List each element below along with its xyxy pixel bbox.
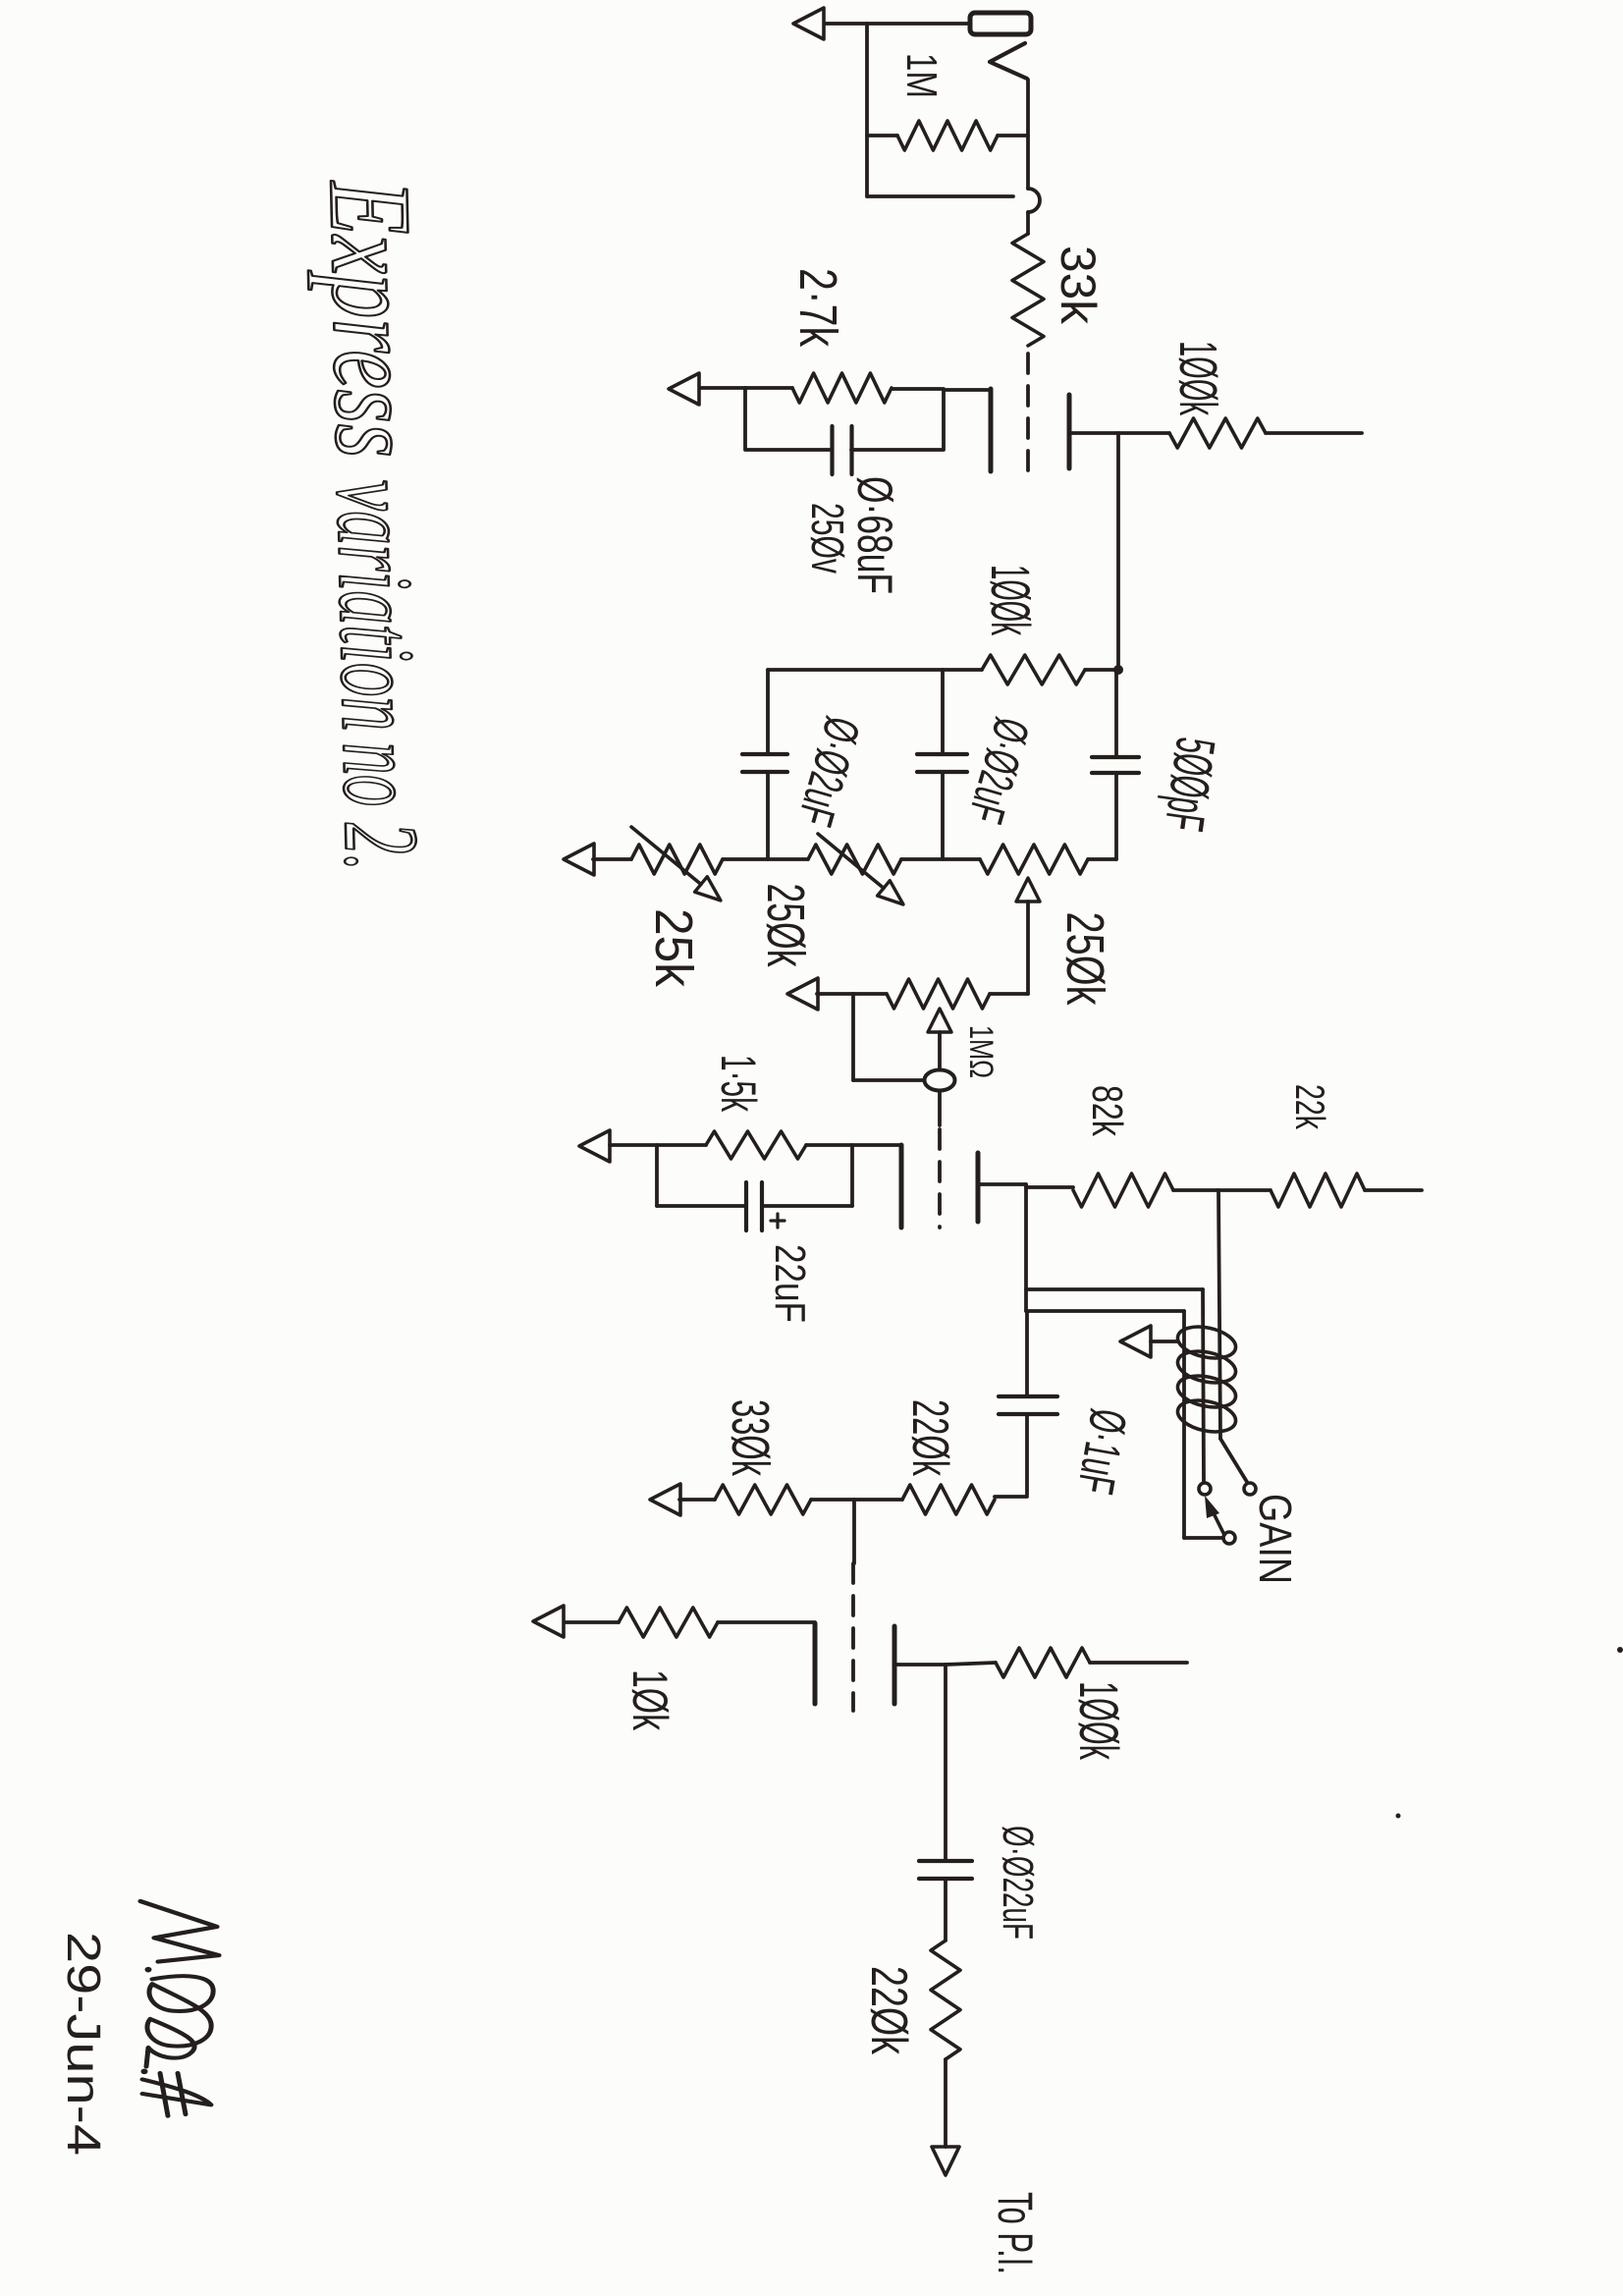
svg-text:2·7k: 2·7k — [788, 268, 847, 348]
svg-text:variation: variation — [314, 479, 437, 733]
svg-text:5ØØpF: 5ØØpF — [1154, 734, 1228, 835]
svg-text:25Øv: 25Øv — [802, 503, 853, 574]
svg-text:GAIN: GAIN — [1250, 1494, 1301, 1584]
svg-text:1ØØk: 1ØØk — [1168, 341, 1227, 416]
svg-text:To P.I.: To P.I. — [988, 2192, 1043, 2274]
svg-text:1·5k: 1·5k — [711, 1055, 766, 1113]
svg-text:25Øk: 25Øk — [1055, 912, 1114, 1007]
svg-text:Express: Express — [305, 178, 440, 459]
svg-text:1ØØk: 1ØØk — [1068, 1681, 1130, 1761]
svg-text:25Øk: 25Øk — [756, 884, 815, 968]
svg-text:Ø·68uF: Ø·68uF — [847, 476, 902, 594]
svg-text:Ø·Ø22uF: Ø·Ø22uF — [994, 1826, 1042, 1940]
svg-text:22Øk: 22Øk — [901, 1399, 958, 1477]
svg-text:25k: 25k — [644, 908, 703, 988]
svg-text:29-Jun-4: 29-Jun-4 — [57, 1932, 109, 2156]
svg-text:33Øk: 33Øk — [721, 1399, 780, 1477]
svg-text:22Øk: 22Øk — [860, 1966, 917, 2055]
svg-text:82k: 82k — [1083, 1085, 1131, 1137]
svg-text:22k: 22k — [1287, 1084, 1333, 1130]
svg-text:1ØØk: 1ØØk — [980, 565, 1042, 635]
svg-text:22uF: 22uF — [766, 1244, 814, 1323]
svg-text:1Øk: 1Øk — [622, 1669, 677, 1731]
svg-text:1M: 1M — [897, 53, 946, 98]
svg-text:1MΩ: 1MΩ — [962, 1025, 1000, 1078]
svg-text:33k: 33k — [1051, 246, 1106, 325]
svg-text:no 2.: no 2. — [320, 741, 440, 872]
